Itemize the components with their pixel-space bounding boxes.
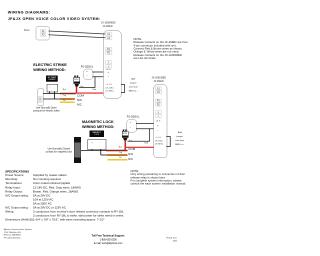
wire labels magnetic rows: [119, 146, 122, 148]
label Red 2: [145, 142, 149, 144]
wire PS2 minus to U2: [136, 127, 154, 130]
relay1 label Gry: [80, 85, 83, 87]
U1 terminal A1: [105, 33, 112, 37]
electric strike title: [33, 63, 73, 72]
strike caption: [30, 107, 63, 113]
wire strike drop right: [53, 91, 56, 99]
door station label: [24, 29, 30, 32]
footer address: [4, 228, 42, 239]
wire magnet row3 yellow: [108, 157, 128, 163]
wire magnet drop left: [90, 149, 93, 151]
relay RY-18L 2 pins: [123, 130, 125, 132]
U2 bottom text: [155, 137, 161, 139]
door station box: [36, 26, 50, 40]
wire strike row1 red to U1: [76, 91, 104, 96]
U1 terminal minus: [108, 75, 110, 78]
wire magnet row2 orange: [107, 152, 128, 159]
contact label N/C 1: [77, 103, 82, 106]
relay RY-18L 1 cap: [74, 77, 81, 83]
relay RY-18L 2 cap: [122, 131, 129, 137]
wire gray relay1 riser: [79, 77, 95, 88]
wire door A2 to U1 A2: [49, 35, 106, 38]
U1 terminal L: [105, 61, 112, 65]
footer doc id: [152, 237, 177, 243]
contact label COM 2: [128, 147, 135, 151]
title WIRING DIAGRAMS: [8, 10, 51, 14]
U1 terminal L2: [105, 65, 112, 69]
wire strike drop left: [48, 91, 51, 93]
strike transformer black label: [46, 76, 58, 82]
wire strike row2 orange: [60, 96, 75, 103]
wire magnet row1 brown: [106, 148, 128, 154]
door terminal A1: [40, 29, 46, 33]
wires svg overlay: [0, 0, 197, 256]
master station 2 labels: [152, 77, 167, 80]
U2 terminal R2: [155, 103, 161, 107]
U2 terminal A1: [155, 87, 161, 91]
jumper note 2: [172, 130, 189, 146]
specifications: [5, 170, 29, 173]
note 1: [134, 38, 202, 60]
wire labels strike rows: [63, 88, 66, 90]
wire PS1 minus to U1: [92, 75, 103, 78]
master station 1 labels: [101, 22, 116, 25]
relay RY-18L 2 band: [122, 136, 129, 138]
U1 terminal A2: [105, 36, 112, 40]
U2 label CA B: [156, 120, 161, 122]
label Red 1: [93, 88, 97, 90]
U1 terminal plus: [108, 71, 110, 74]
strike transformer terminal box: [47, 84, 58, 92]
magnet black label: [90, 131, 105, 138]
master station 2 box JF-2MED: [154, 85, 168, 159]
wire strike row1 black: [43, 92, 61, 95]
U1 terminal R2: [105, 51, 112, 55]
power supply PS2 box: [127, 119, 138, 132]
wire red relay1 drop: [74, 87, 80, 94]
jumper bracket U1: [121, 85, 125, 93]
wire red relay2 to U2: [125, 145, 153, 150]
wire strike row1 brown: [60, 91, 76, 97]
master station 1 box JF-2MED: [103, 31, 121, 99]
relay2 cap stripes: [123, 131, 128, 133]
U2 terminal L: [155, 110, 161, 114]
electric strike plate: [38, 89, 45, 106]
note 2: [131, 170, 200, 186]
relay RY-18L 1 pins: [74, 76, 76, 78]
wire gray relay2 riser: [128, 129, 150, 142]
U2 terminal plus: [157, 124, 159, 127]
wire strike row2 black: [43, 97, 61, 100]
magnetic caption: [43, 147, 76, 154]
U2 terminal minus: [157, 129, 159, 132]
relay2 label Gry: [129, 139, 132, 141]
jumper bracket U2: [166, 137, 170, 147]
wire door A1 to U1 A1: [49, 31, 106, 34]
U2 terminal A2: [155, 91, 161, 95]
wire red relay2 drop: [122, 141, 128, 151]
magnet terminal box: [88, 139, 107, 150]
wire magnet row2 black: [101, 153, 108, 156]
door terminal A2: [40, 33, 46, 37]
jumper note 1: [126, 77, 142, 93]
U2 terminal L2: [155, 114, 161, 118]
contact label N/C 2: [128, 158, 133, 161]
PS-1820UL label 1: [81, 65, 93, 68]
power supply PS1 box: [83, 69, 93, 80]
contact label N/O 1: [77, 99, 82, 102]
wire PS1 plus to U1: [92, 71, 103, 74]
relay RY-18L 2 body taper: [123, 138, 128, 141]
footer support: [87, 235, 130, 238]
wire PS2 plus to U2: [136, 122, 154, 125]
relay RY-18L 1 body taper: [75, 84, 80, 87]
contact label COM 1: [77, 94, 84, 98]
subtitle JF&JX system: [8, 17, 101, 21]
wire strike row3 yellow: [60, 99, 75, 105]
magnet bar: [74, 137, 81, 163]
wire magnet row1 black: [81, 149, 107, 152]
U1 label CA B: [106, 69, 111, 71]
relay1 cap stripes: [74, 77, 79, 79]
magnetic lock title: [82, 120, 122, 129]
contact label N/O 2: [128, 153, 133, 156]
U2 terminal R1: [155, 99, 161, 103]
PS-1820UL label 2: [127, 115, 139, 118]
wire magnet drop right: [99, 149, 102, 155]
U1 terminal R1: [105, 47, 112, 51]
relay RY-18L 1 band: [74, 82, 81, 84]
U1 bottom text: [106, 84, 112, 86]
